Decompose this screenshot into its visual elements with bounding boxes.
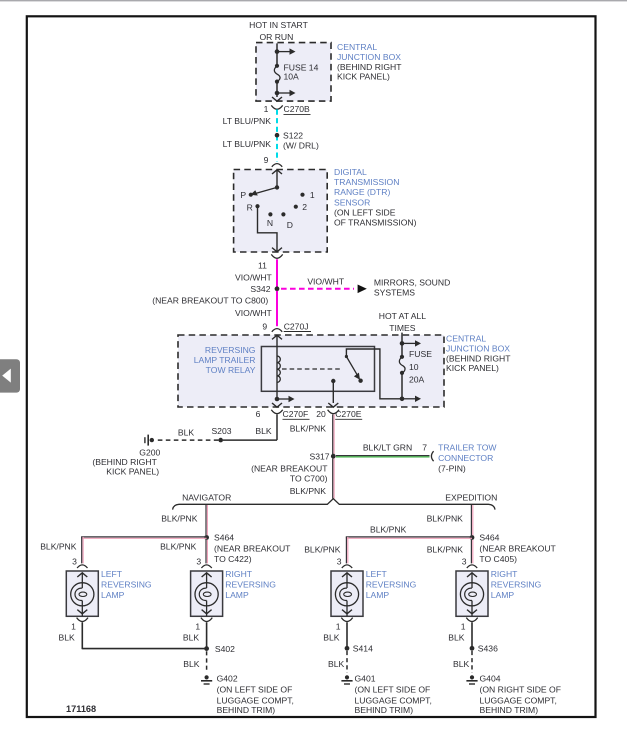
svg-text:2: 2 (302, 202, 307, 212)
svg-text:JUNCTION BOX: JUNCTION BOX (337, 52, 401, 62)
svg-text:KICK PANEL): KICK PANEL) (337, 71, 390, 81)
svg-text:VIO/WHT: VIO/WHT (235, 272, 273, 282)
svg-text:REVERSING: REVERSING (205, 345, 256, 355)
svg-text:LAMP: LAMP (491, 590, 515, 600)
svg-text:NAVIGATOR: NAVIGATOR (182, 492, 231, 502)
svg-text:(NEAR BREAKOUT: (NEAR BREAKOUT (251, 463, 328, 473)
svg-text:LT BLU/PNK: LT BLU/PNK (223, 116, 272, 126)
svg-text:20: 20 (316, 409, 326, 419)
svg-text:KICK PANEL): KICK PANEL) (106, 467, 159, 477)
svg-text:C270B: C270B (284, 104, 311, 114)
svg-text:LUGGAGE COMPT,: LUGGAGE COMPT, (355, 695, 432, 705)
svg-text:BLK/PNK: BLK/PNK (427, 544, 464, 554)
svg-text:1: 1 (461, 622, 466, 632)
svg-text:BLK: BLK (183, 659, 200, 669)
svg-text:9: 9 (264, 155, 269, 165)
svg-text:VIO/WHT: VIO/WHT (307, 277, 345, 287)
svg-text:DIGITAL: DIGITAL (334, 167, 367, 177)
svg-text:(NEAR BREAKOUT: (NEAR BREAKOUT (479, 544, 556, 554)
svg-text:10A: 10A (284, 72, 300, 82)
svg-text:LUGGAGE COMPT,: LUGGAGE COMPT, (480, 695, 557, 705)
svg-text:1: 1 (195, 622, 200, 632)
svg-text:HOT IN START: HOT IN START (249, 20, 308, 30)
svg-text:S464: S464 (479, 533, 499, 543)
svg-text:REVERSING: REVERSING (101, 580, 152, 590)
svg-text:1: 1 (71, 622, 76, 632)
svg-text:BLK/PNK: BLK/PNK (304, 544, 341, 554)
svg-text:BLK: BLK (178, 428, 195, 438)
svg-text:CONNECTOR: CONNECTOR (438, 453, 493, 463)
svg-text:TIMES: TIMES (389, 323, 416, 333)
svg-text:LUGGAGE COMPT,: LUGGAGE COMPT, (217, 695, 294, 705)
svg-text:1: 1 (310, 190, 315, 200)
svg-text:VIO/WHT: VIO/WHT (235, 308, 273, 318)
svg-text:C270J: C270J (284, 321, 309, 331)
svg-text:(NEAR BREAKOUT: (NEAR BREAKOUT (214, 544, 291, 554)
svg-text:LT BLU/PNK: LT BLU/PNK (223, 139, 272, 149)
svg-text:BLK/PNK: BLK/PNK (160, 542, 197, 552)
svg-text:FUSE: FUSE (409, 349, 432, 359)
svg-text:BLK/PNK: BLK/PNK (370, 525, 407, 535)
svg-text:BLK: BLK (183, 633, 200, 643)
svg-text:REVERSING: REVERSING (366, 580, 417, 590)
svg-text:BLK/PNK: BLK/PNK (290, 486, 327, 496)
svg-text:9: 9 (262, 321, 267, 331)
svg-text:6: 6 (256, 409, 261, 419)
svg-text:RIGHT: RIGHT (491, 569, 518, 579)
svg-text:EXPEDITION: EXPEDITION (445, 493, 497, 503)
svg-text:7: 7 (422, 442, 427, 452)
svg-text:C270E: C270E (335, 409, 362, 419)
svg-text:CENTRAL: CENTRAL (446, 333, 486, 343)
svg-text:(W/ DRL): (W/ DRL) (283, 140, 319, 150)
svg-text:3: 3 (462, 557, 467, 567)
svg-text:(ON LEFT SIDE: (ON LEFT SIDE (334, 208, 396, 218)
svg-text:P: P (240, 190, 246, 200)
svg-text:C270F: C270F (283, 409, 309, 419)
svg-text:(ON LEFT SIDE OF: (ON LEFT SIDE OF (355, 685, 431, 695)
svg-text:G402: G402 (217, 674, 238, 684)
svg-text:MIRRORS, SOUND: MIRRORS, SOUND (374, 277, 450, 287)
svg-text:BLK/PNK: BLK/PNK (161, 513, 198, 523)
svg-text:TO C422): TO C422) (214, 554, 252, 564)
svg-text:OF TRANSMISSION): OF TRANSMISSION) (334, 218, 417, 228)
svg-text:3: 3 (72, 557, 77, 567)
svg-text:TOW RELAY: TOW RELAY (206, 365, 256, 375)
svg-text:(BEHIND RIGHT: (BEHIND RIGHT (446, 353, 511, 363)
svg-text:BLK/PNK: BLK/PNK (290, 423, 327, 433)
svg-text:D: D (287, 220, 293, 230)
svg-text:HOT AT ALL: HOT AT ALL (379, 311, 427, 321)
svg-text:(NEAR BREAKOUT TO C800): (NEAR BREAKOUT TO C800) (152, 295, 268, 305)
svg-text:BLK: BLK (328, 659, 345, 669)
svg-text:S464: S464 (214, 533, 234, 543)
svg-text:G401: G401 (355, 674, 376, 684)
svg-text:(BEHIND RIGHT: (BEHIND RIGHT (92, 457, 157, 467)
svg-text:OR RUN: OR RUN (259, 32, 293, 42)
svg-text:G404: G404 (480, 674, 501, 684)
svg-text:LEFT: LEFT (101, 569, 123, 579)
svg-text:SYSTEMS: SYSTEMS (374, 287, 415, 297)
svg-text:KICK PANEL): KICK PANEL) (446, 363, 499, 373)
svg-text:1: 1 (336, 622, 341, 632)
svg-text:TRAILER TOW: TRAILER TOW (438, 443, 497, 453)
svg-text:171168: 171168 (66, 704, 96, 714)
svg-text:3: 3 (337, 557, 342, 567)
svg-text:TO C405): TO C405) (479, 554, 517, 564)
svg-text:BLK: BLK (59, 633, 76, 643)
svg-text:SENSOR: SENSOR (334, 197, 370, 207)
svg-text:BLK: BLK (453, 659, 470, 669)
svg-text:BLK/LT GRN: BLK/LT GRN (363, 442, 412, 452)
svg-text:S317: S317 (310, 451, 330, 461)
svg-text:S436: S436 (478, 644, 498, 654)
svg-text:TRANSMISSION: TRANSMISSION (334, 177, 399, 187)
svg-text:(ON RIGHT SIDE OF: (ON RIGHT SIDE OF (480, 685, 562, 695)
svg-text:(7-PIN): (7-PIN) (438, 464, 466, 474)
svg-text:(ON LEFT SIDE OF: (ON LEFT SIDE OF (217, 685, 293, 695)
svg-text:LAMP TRAILER: LAMP TRAILER (194, 355, 256, 365)
svg-text:CENTRAL: CENTRAL (337, 42, 377, 52)
svg-text:N: N (267, 218, 273, 228)
svg-text:R: R (247, 203, 253, 213)
svg-text:LAMP: LAMP (101, 590, 125, 600)
svg-text:LAMP: LAMP (366, 590, 390, 600)
svg-text:RIGHT: RIGHT (225, 569, 252, 579)
svg-text:RANGE (DTR): RANGE (DTR) (334, 187, 390, 197)
svg-text:S402: S402 (215, 644, 235, 654)
svg-text:S122: S122 (283, 130, 303, 140)
svg-text:S414: S414 (353, 644, 373, 654)
svg-text:JUNCTION BOX: JUNCTION BOX (446, 343, 510, 353)
svg-text:LAMP: LAMP (225, 590, 249, 600)
svg-text:S342: S342 (250, 284, 270, 294)
svg-text:BLK: BLK (255, 426, 272, 436)
svg-text:BLK/PNK: BLK/PNK (40, 542, 77, 552)
svg-text:20A: 20A (409, 375, 425, 385)
svg-text:TO C700): TO C700) (290, 474, 328, 484)
svg-text:BEHIND TRIM): BEHIND TRIM) (355, 705, 414, 715)
svg-text:REVERSING: REVERSING (491, 580, 542, 590)
svg-text:REVERSING: REVERSING (225, 580, 276, 590)
svg-text:1: 1 (264, 104, 269, 114)
svg-text:S203: S203 (211, 426, 231, 436)
svg-text:BLK: BLK (323, 633, 340, 643)
svg-text:BEHIND TRIM): BEHIND TRIM) (480, 705, 539, 715)
svg-text:11: 11 (258, 260, 267, 270)
svg-text:BLK: BLK (448, 633, 465, 643)
svg-text:10: 10 (409, 362, 419, 372)
svg-text:(BEHIND RIGHT: (BEHIND RIGHT (337, 62, 402, 72)
svg-text:LEFT: LEFT (366, 569, 388, 579)
svg-text:BEHIND TRIM): BEHIND TRIM) (217, 705, 276, 715)
svg-text:3: 3 (196, 557, 201, 567)
svg-text:BLK/PNK: BLK/PNK (427, 513, 464, 523)
